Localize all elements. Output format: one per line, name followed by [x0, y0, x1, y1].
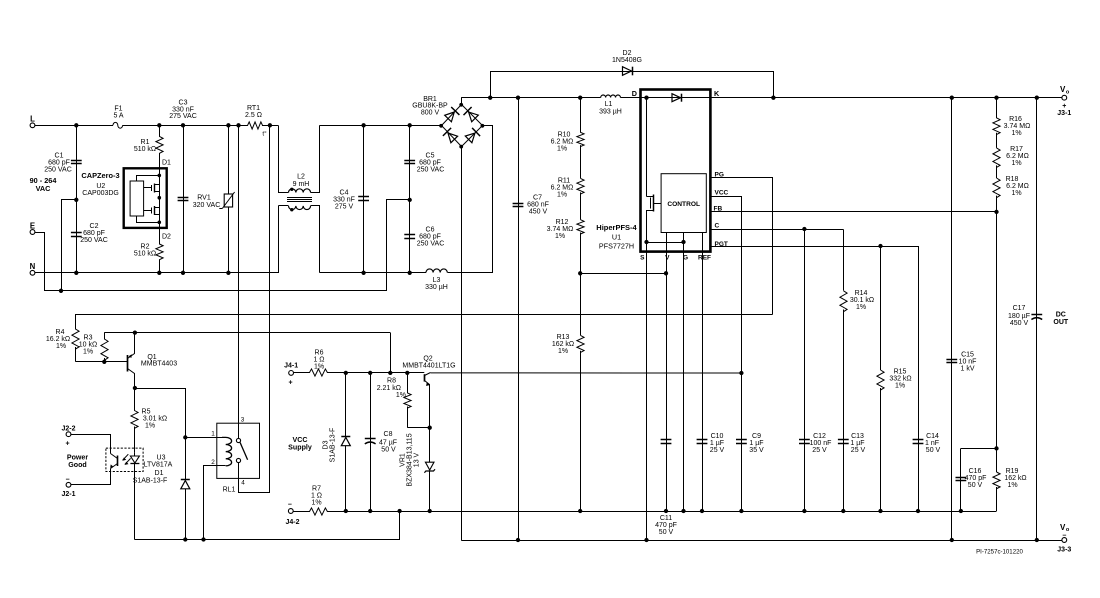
resistor R10	[551, 98, 584, 153]
svg-text:1%: 1%	[856, 304, 866, 311]
CAPZero internal bus	[158, 168, 162, 228]
junction dot VCC/Q2 collector	[739, 371, 743, 375]
junction dot R13 bottom	[578, 509, 582, 513]
svg-text:U2: U2	[96, 183, 105, 190]
svg-text:680 nF: 680 nF	[527, 201, 549, 208]
wire Q2 collector to VCC pin	[431, 372, 742, 374]
svg-text:Good: Good	[68, 461, 87, 469]
junction dot R8/emitter	[428, 426, 432, 430]
svg-text:2: 2	[211, 459, 215, 466]
svg-text:9 mH: 9 mH	[293, 181, 310, 188]
svg-text:D2: D2	[162, 233, 171, 240]
junction dot REF on gnd line	[700, 509, 704, 513]
wire R18 to FB node	[996, 196, 998, 212]
svg-text:D1: D1	[162, 159, 171, 166]
label Power Good	[67, 454, 89, 469]
junction dot R10 top	[578, 96, 582, 100]
svg-text:o: o	[1066, 90, 1070, 96]
svg-text:R16: R16	[1009, 116, 1022, 123]
pin S line	[640, 242, 646, 540]
bridge BR1 diode top-right	[464, 107, 479, 122]
CAPZero internal MOSFET lower	[144, 206, 160, 215]
svg-text:C6: C6	[426, 226, 435, 233]
svg-text:U3: U3	[157, 454, 166, 461]
U3 phototransistor	[110, 454, 117, 469]
label DC OUT	[1053, 312, 1069, 326]
svg-text:332 kΩ: 332 kΩ	[889, 376, 911, 383]
wire J2-2 to photocollector	[71, 435, 111, 454]
label VR1	[400, 433, 421, 486]
inductor L3	[425, 269, 448, 291]
junction dot relay pin4 riser	[268, 123, 272, 127]
U1 internal drain line	[641, 96, 711, 100]
svg-text:V: V	[665, 254, 670, 261]
svg-text:D: D	[632, 89, 637, 98]
svg-text:PFS7727H: PFS7727H	[599, 242, 634, 251]
svg-text:6.2 MΩ: 6.2 MΩ	[1006, 153, 1029, 160]
bridge vertex dots	[439, 103, 484, 149]
junction dot G on gnd line	[681, 509, 685, 513]
CAPZero internal bottom link	[137, 217, 160, 223]
transistor Q2	[402, 356, 455, 428]
svg-text:Supply: Supply	[288, 443, 312, 451]
svg-text:50 V: 50 V	[659, 529, 674, 536]
svg-text:1%: 1%	[557, 192, 567, 199]
junction dot R16 top	[994, 96, 998, 100]
capacitor C15	[946, 351, 976, 372]
capacitor C10	[697, 433, 725, 454]
svg-text:C2: C2	[90, 223, 99, 230]
svg-text:3: 3	[241, 417, 245, 424]
svg-text:CAP003DG: CAP003DG	[82, 190, 119, 197]
svg-text:1%: 1%	[314, 364, 324, 371]
wire left gnd rail	[135, 512, 400, 540]
svg-text:1%: 1%	[1011, 190, 1021, 197]
wire relay pin3 riser	[238, 125, 240, 438]
junction dot C7 bottom	[516, 538, 520, 542]
capacitor C9	[736, 433, 764, 454]
svg-text:C8: C8	[384, 431, 393, 438]
capacitor C7	[513, 194, 549, 215]
svg-text:680 pF: 680 pF	[419, 159, 441, 166]
inductor L1	[599, 95, 622, 115]
svg-text:t°: t°	[262, 130, 267, 138]
relay RL1 box	[217, 423, 260, 478]
svg-text:1%: 1%	[558, 348, 568, 355]
junction dot relay pin2 bottom	[201, 537, 205, 541]
U3 LED	[130, 453, 139, 540]
junction dot RV1 bottom	[226, 271, 230, 275]
svg-text:J2-2: J2-2	[61, 425, 75, 432]
resistor R14	[840, 230, 874, 312]
junction dot R12/R13/V node	[578, 271, 582, 275]
svg-text:E: E	[30, 221, 35, 230]
pin VCC wire	[711, 190, 742, 512]
resistor R12	[547, 192, 584, 240]
svg-text:1 nF: 1 nF	[925, 440, 939, 447]
svg-text:C5: C5	[426, 152, 435, 159]
svg-text:R2: R2	[141, 244, 150, 251]
capacitor C11	[655, 440, 677, 537]
capacitor C17	[1008, 305, 1042, 327]
svg-text:R8: R8	[387, 378, 396, 385]
junction dot C15 top	[950, 96, 954, 100]
wire V-node link	[580, 273, 666, 275]
junction dot V on gnd line	[664, 509, 668, 513]
svg-text:680 pF: 680 pF	[419, 233, 441, 240]
svg-text:1 µF: 1 µF	[850, 440, 864, 447]
bridge BR1 diode bottom-left	[443, 128, 458, 143]
svg-text:R18: R18	[1006, 176, 1019, 183]
wire bottom rail to L3	[319, 272, 426, 274]
junction dot C16/R19 top node	[994, 446, 998, 450]
capacitor C2	[71, 223, 108, 244]
terminal J4-2	[285, 502, 299, 527]
svg-text:C10: C10	[711, 433, 724, 440]
wire C16/R19 top link	[961, 448, 997, 450]
svg-text:25 V: 25 V	[812, 447, 827, 454]
label 90-264 VAC	[30, 176, 58, 193]
svg-text:275 VAC: 275 VAC	[169, 113, 197, 120]
svg-text:C: C	[715, 223, 720, 230]
svg-text:25 V: 25 V	[851, 447, 866, 454]
resistor R15	[877, 246, 912, 513]
svg-text:PG: PG	[715, 172, 724, 179]
svg-text:C12: C12	[813, 433, 826, 440]
junction dot C9 bottom	[739, 509, 743, 513]
svg-text:OUT: OUT	[1053, 319, 1069, 326]
svg-text:30.1 kΩ: 30.1 kΩ	[850, 297, 874, 304]
varistor RV1	[193, 192, 235, 209]
svg-text:+: +	[289, 380, 293, 387]
capacitor C5/C6 branch	[409, 125, 411, 272]
svg-text:3.01 kΩ: 3.01 kΩ	[143, 416, 167, 423]
pin PG wire	[711, 172, 773, 315]
U1 internal MOSFET	[647, 98, 662, 243]
svg-text:250 VAC: 250 VAC	[417, 240, 445, 247]
svg-text:13 V: 13 V	[414, 452, 421, 467]
svg-text:1 µF: 1 µF	[710, 440, 724, 447]
junction dot relay pin1 branch	[183, 435, 187, 439]
inductor L2 bottom winding	[279, 206, 320, 273]
svg-text:G: G	[683, 254, 688, 261]
svg-text:16.2 kΩ: 16.2 kΩ	[46, 336, 70, 343]
capacitor C12 branch	[802, 229, 806, 513]
diode D1	[133, 470, 190, 539]
capacitor C8	[365, 373, 397, 511]
svg-text:393 µH: 393 µH	[599, 108, 622, 115]
svg-text:VAC: VAC	[36, 184, 52, 193]
svg-text:250 VAC: 250 VAC	[80, 237, 108, 244]
junction dot V line node	[664, 271, 668, 275]
label VCC Supply	[288, 436, 312, 451]
wire K to output terminal	[710, 97, 1062, 99]
svg-text:RT1: RT1	[247, 105, 260, 112]
diode D2	[612, 50, 642, 75]
junction dot VR1 bottom	[428, 509, 432, 513]
svg-text:5 A: 5 A	[113, 113, 123, 120]
resistor R13	[552, 273, 584, 511]
svg-text:+: +	[65, 441, 69, 448]
svg-text:1%: 1%	[557, 146, 567, 153]
svg-text:J4-2: J4-2	[285, 519, 299, 526]
svg-text:275 V: 275 V	[335, 203, 354, 210]
wire FB node down to C16/R19	[996, 212, 998, 449]
svg-text:U1: U1	[612, 232, 621, 241]
svg-text:6.2 MΩ: 6.2 MΩ	[551, 139, 574, 146]
junction dot C1/C2 bottom	[74, 271, 78, 275]
IC U1 HiperPFS-4 box	[641, 90, 711, 252]
IC U2 CAPZero-3 box	[124, 168, 167, 228]
capacitor C4 branch	[363, 125, 365, 272]
svg-text:1%: 1%	[1011, 160, 1021, 167]
svg-text:162 kΩ: 162 kΩ	[552, 341, 574, 348]
wire power gnd rail	[461, 540, 1062, 542]
capacitor C12	[799, 433, 831, 454]
svg-text:J3-1: J3-1	[1057, 110, 1071, 117]
junction dot R15 top	[878, 244, 882, 248]
svg-text:1%: 1%	[396, 392, 406, 399]
svg-text:HiperPFS-4: HiperPFS-4	[596, 223, 637, 232]
svg-text:−: −	[65, 477, 69, 484]
svg-text:1 Ω: 1 Ω	[311, 493, 322, 500]
wire R3 top / emitter line	[104, 332, 390, 334]
junction dot C16 bottom	[959, 509, 963, 513]
label RL1	[223, 487, 236, 494]
svg-text:470 pF: 470 pF	[655, 522, 677, 529]
svg-text:DC: DC	[1056, 312, 1066, 319]
L2 phase dot top	[290, 188, 293, 191]
wire signal gnd line	[328, 511, 997, 513]
wire relay pin2	[204, 459, 226, 539]
svg-text:320 VAC: 320 VAC	[193, 202, 221, 209]
svg-text:50 V: 50 V	[968, 482, 983, 489]
label BR1	[412, 96, 448, 117]
svg-text:680 pF: 680 pF	[83, 230, 105, 237]
resistor R11	[551, 145, 584, 199]
svg-text:510 kΩ: 510 kΩ	[134, 146, 156, 153]
wire J2-1 to photoemitter	[71, 469, 111, 485]
svg-text:C17: C17	[1013, 305, 1026, 312]
optocoupler U3 box	[106, 448, 143, 471]
svg-text:R3: R3	[84, 335, 93, 342]
capacitor C15 branch	[951, 98, 953, 540]
bridge BR1 outline	[442, 105, 483, 147]
svg-text:C9: C9	[752, 433, 761, 440]
junction dot C1 top	[74, 123, 78, 127]
junction dot earth/midpoint	[59, 289, 63, 293]
diode D3	[323, 373, 351, 511]
terminal E (earth input)	[30, 221, 35, 234]
svg-text:F1: F1	[114, 106, 122, 113]
junction dot C12 top	[802, 227, 806, 231]
svg-text:1: 1	[211, 431, 215, 438]
resistor R4	[46, 329, 79, 362]
wire relay pin4 riser	[239, 126, 270, 493]
terminal J2-2	[61, 425, 75, 447]
CAPZero internal rect	[130, 181, 144, 216]
capacitor C3	[169, 100, 197, 201]
svg-text:680 pF: 680 pF	[48, 160, 70, 167]
svg-text:50 V: 50 V	[926, 447, 941, 454]
svg-text:BZX384-B13,115: BZX384-B13,115	[407, 433, 414, 486]
junction dot C8 bottom	[368, 509, 372, 513]
svg-text:R17: R17	[1010, 146, 1023, 153]
junction dot C4 bottom	[361, 271, 365, 275]
bridge BR1 diode bottom-right	[465, 128, 480, 143]
svg-text:C1: C1	[55, 153, 64, 160]
svg-text:1%: 1%	[1007, 482, 1017, 489]
varistor RV1 branch	[228, 125, 230, 272]
capacitor C6	[404, 226, 444, 247]
resistor R6	[294, 349, 329, 376]
label CAPZero-3	[81, 171, 119, 197]
junction dot FB node	[994, 210, 998, 214]
svg-text:470 pF: 470 pF	[965, 475, 987, 482]
capacitor C7 branch	[518, 98, 520, 540]
thermistor RT1	[245, 105, 267, 138]
wire L1 to D pin	[620, 97, 640, 99]
pin G line	[683, 233, 688, 512]
diode D2 path	[491, 72, 774, 98]
terminal J3-3 Vo-	[1057, 523, 1071, 554]
junction dot Q1 collector node	[133, 386, 137, 390]
junction dot R3 bottom	[102, 360, 106, 364]
junction dot C17 bottom	[1035, 538, 1039, 542]
svg-text:PGT: PGT	[715, 241, 728, 248]
svg-text:1%: 1%	[145, 423, 155, 430]
svg-text:C4: C4	[340, 189, 349, 196]
svg-text:R10: R10	[558, 132, 571, 139]
resistor R18	[993, 165, 1029, 197]
pin PGT wire	[711, 241, 919, 248]
svg-text:162 kΩ: 162 kΩ	[1004, 475, 1026, 482]
svg-text:L: L	[30, 115, 35, 124]
capacitor C16 leg	[960, 448, 962, 511]
junction dot R1 top	[157, 123, 161, 127]
junction dot RV1 top	[226, 123, 230, 127]
wire top rail to bridge	[319, 125, 441, 127]
U1 source node	[644, 240, 685, 244]
wire L3 to bridge right	[448, 126, 493, 273]
capacitor C13 branch	[841, 310, 845, 514]
label PI-7257c-101220	[976, 549, 1023, 556]
capacitor C14	[913, 433, 941, 454]
wire midpoint to earth line	[62, 200, 77, 291]
svg-text:4: 4	[241, 480, 245, 487]
svg-text:o: o	[1066, 527, 1070, 533]
junction dot C5 top	[408, 123, 412, 127]
svg-text:180 µF: 180 µF	[1008, 313, 1030, 320]
wire bridge top to DC+ rail	[461, 98, 463, 105]
svg-text:450 V: 450 V	[1010, 320, 1029, 327]
U3 light arrows	[122, 454, 130, 465]
svg-text:CAPZero-3: CAPZero-3	[81, 171, 119, 180]
svg-text:S: S	[640, 254, 645, 261]
svg-text:1%: 1%	[555, 233, 565, 240]
terminal L (AC line input)	[30, 115, 35, 128]
svg-text:VCC: VCC	[715, 190, 729, 197]
zener VR1	[424, 428, 435, 511]
CAPZero internal MOSFET upper	[144, 184, 160, 193]
svg-text:S1AB-13-F: S1AB-13-F	[330, 428, 337, 463]
resistor R2	[134, 228, 163, 273]
wire N rail	[35, 206, 279, 273]
terminal J4-1	[284, 362, 298, 386]
wire L rail fuse to RT1	[123, 125, 247, 127]
svg-text:3.74 MΩ: 3.74 MΩ	[1004, 123, 1031, 130]
svg-text:1%: 1%	[83, 349, 93, 356]
svg-text:330 µH: 330 µH	[425, 284, 448, 291]
U1 internal boost diode	[672, 94, 682, 102]
resistor R8	[377, 373, 430, 428]
junction dot C8 top	[368, 371, 372, 375]
svg-text:510 kΩ: 510 kΩ	[134, 251, 156, 258]
capacitor C5	[404, 152, 444, 173]
label pin3	[241, 417, 245, 424]
junction dot C1-C2 midpoint	[74, 198, 78, 202]
capacitor C3 branch	[183, 125, 185, 272]
svg-text:C13: C13	[851, 433, 864, 440]
label L2	[293, 174, 310, 188]
junction dot Q1 emitter	[133, 330, 137, 334]
svg-text:R4: R4	[56, 329, 65, 336]
capacitor C14 branch	[916, 246, 920, 513]
svg-text:50 V: 50 V	[381, 446, 396, 453]
junction dot C7 top	[516, 96, 520, 100]
wire PG return line	[76, 315, 773, 330]
svg-text:L2: L2	[297, 174, 305, 181]
svg-text:L1: L1	[605, 101, 613, 108]
junction dot C6 bottom	[408, 271, 412, 275]
svg-text:D1: D1	[155, 470, 164, 477]
svg-text:J2-1: J2-1	[61, 491, 75, 498]
svg-text:PI-7257c-101220: PI-7257c-101220	[976, 549, 1023, 556]
CAPZero internal top link	[137, 176, 160, 182]
capacitor C17 branch	[1036, 98, 1038, 540]
svg-text:R5: R5	[142, 409, 151, 416]
pin REF line	[698, 233, 711, 512]
svg-text:C7: C7	[533, 194, 542, 201]
pin FB wire	[710, 205, 996, 212]
wire relay pin1	[185, 431, 222, 438]
L2 core	[287, 198, 312, 202]
svg-text:C11: C11	[660, 515, 672, 522]
svg-text:S1AB-13-F: S1AB-13-F	[133, 477, 168, 484]
svg-text:450 V: 450 V	[529, 208, 548, 215]
svg-text:1%: 1%	[56, 343, 66, 350]
junction dot D3 bottom	[344, 509, 348, 513]
svg-text:R11: R11	[558, 178, 570, 185]
pin C wire	[711, 223, 844, 230]
svg-text:1%: 1%	[895, 383, 905, 390]
junction dot R2 bottom	[157, 271, 161, 275]
wire emitter line to VCC line	[390, 333, 392, 373]
fuse F1	[113, 106, 124, 129]
transistor Q1	[128, 333, 178, 389]
svg-text:47 µF: 47 µF	[379, 439, 397, 446]
wire L rail after RT1	[262, 125, 278, 127]
junction dot D2 right riser	[771, 96, 775, 100]
junction dot S on gnd rail	[644, 538, 648, 542]
resistor R7	[293, 485, 328, 515]
svg-text:−: −	[288, 502, 292, 509]
resistor R5	[131, 388, 167, 453]
capacitor C4	[333, 189, 369, 210]
svg-text:R14: R14	[855, 290, 868, 297]
svg-text:D3: D3	[323, 440, 330, 449]
L2 phase dot bottom	[290, 208, 293, 211]
